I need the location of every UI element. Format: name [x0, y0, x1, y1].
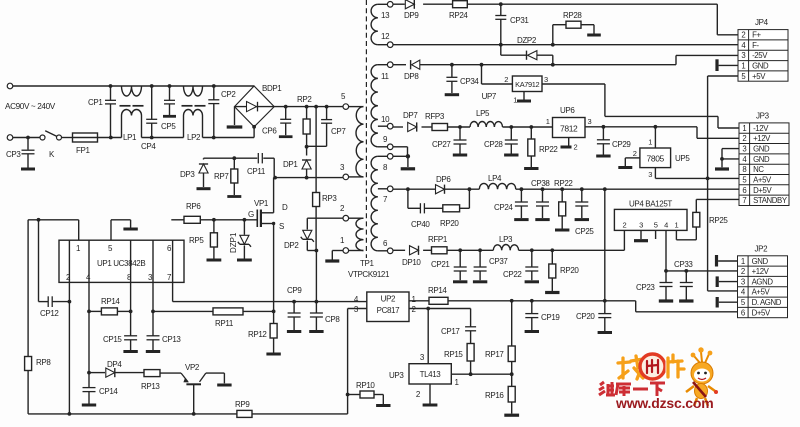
- svg-text:11: 11: [381, 72, 389, 81]
- resistor RP7: [214, 158, 241, 196]
- svg-text:7: 7: [742, 196, 746, 205]
- wire TL413 pin1: [451, 372, 513, 376]
- capacitor CP12: [39, 220, 70, 318]
- svg-text:CP20: CP20: [576, 312, 595, 321]
- diode DP6: [436, 175, 452, 194]
- wire +5V vertical: [707, 76, 709, 291]
- svg-text:TL413: TL413: [420, 370, 442, 379]
- diode DP3: [180, 158, 211, 189]
- svg-text:CP31: CP31: [510, 16, 529, 25]
- capacitor CP6: [262, 107, 293, 137]
- diode DP4: [89, 360, 144, 377]
- svg-text:UP4 BA125T: UP4 BA125T: [629, 200, 672, 209]
- connector JP3: [739, 111, 789, 205]
- svg-text:RP3: RP3: [322, 194, 337, 203]
- svg-text:CP8: CP8: [325, 315, 340, 324]
- svg-text:CP11: CP11: [247, 167, 266, 176]
- svg-text:VTPCK9121: VTPCK9121: [348, 270, 390, 279]
- svg-text:2: 2: [623, 221, 627, 230]
- label AC90V ~ 240V: [5, 102, 56, 111]
- svg-text:CP38: CP38: [531, 179, 550, 188]
- svg-text:3: 3: [588, 117, 592, 126]
- resistor RP12: [248, 311, 281, 354]
- capacitor CP1: [88, 86, 116, 138]
- svg-text:CP25: CP25: [575, 227, 594, 236]
- svg-text:www.dzsc.com: www.dzsc.com: [615, 395, 713, 411]
- ic UP1 UC3842B: [59, 240, 184, 282]
- svg-text:1: 1: [675, 221, 679, 230]
- svg-text:RP25: RP25: [709, 216, 728, 225]
- svg-text:RFP3: RFP3: [425, 112, 445, 121]
- svg-text:1: 1: [741, 257, 745, 266]
- node pin 6: [378, 239, 393, 254]
- svg-text:RP14: RP14: [428, 286, 447, 295]
- svg-text:RP13: RP13: [141, 382, 160, 391]
- wire pin2 to ground rail: [68, 240, 72, 416]
- wire pin8 stem: [129, 240, 133, 336]
- node bridge dc- vertex: [252, 125, 256, 129]
- svg-text:S: S: [279, 222, 284, 231]
- inductor LP2 common-mode choke: [182, 86, 206, 142]
- wire +12V secondary to JP2: [666, 269, 738, 273]
- svg-text:RP14: RP14: [101, 297, 120, 306]
- capacitor CP15: [103, 335, 138, 352]
- transistor VP2: [181, 363, 224, 414]
- svg-text:TP1: TP1: [360, 259, 374, 268]
- wire gate node: [200, 218, 257, 222]
- wire pins 9-8 ground: [393, 147, 415, 169]
- capacitor CP25: [575, 189, 595, 236]
- svg-text:VP1: VP1: [254, 199, 269, 208]
- svg-text:D+5V: D+5V: [753, 186, 772, 195]
- diode DP10: [402, 246, 421, 267]
- svg-text:CP24: CP24: [494, 203, 513, 212]
- svg-text:LP3: LP3: [499, 235, 513, 244]
- wire pin7 rail D+5V: [393, 187, 739, 191]
- svg-text:CP12: CP12: [40, 309, 59, 318]
- svg-text:7805: 7805: [647, 154, 665, 164]
- capacitor CP9: [287, 286, 302, 332]
- svg-text:-25V: -25V: [752, 51, 768, 60]
- svg-text:RP8: RP8: [36, 358, 51, 367]
- ground at pin1: [325, 251, 343, 262]
- svg-text:A+5V: A+5V: [752, 288, 771, 297]
- svg-text:RP5: RP5: [189, 236, 204, 245]
- svg-text:DP9: DP9: [404, 11, 419, 20]
- capacitor CP24: [494, 189, 529, 219]
- svg-text:RP20: RP20: [440, 219, 459, 228]
- svg-text:3: 3: [742, 145, 746, 154]
- node clamp junction: [305, 145, 309, 149]
- capacitor CP21: [431, 250, 467, 281]
- optocoupler UP2 PC817: [354, 292, 417, 322]
- ground JP4 GND: [717, 59, 738, 71]
- capacitor CP11: [247, 153, 266, 176]
- wire snubber top: [204, 156, 275, 177]
- wire UP4 pin2: [623, 230, 625, 250]
- svg-text:GND: GND: [752, 62, 769, 71]
- svg-text:GND: GND: [752, 257, 769, 266]
- wire AC top line: [13, 84, 254, 88]
- svg-text:CP14: CP14: [99, 387, 118, 396]
- wire aux VCC drop: [315, 251, 317, 301]
- capacitor CP2: [208, 86, 236, 138]
- ic UP3 TL413: [389, 309, 460, 400]
- wire STANDBY: [696, 198, 739, 200]
- wire pin1 loop: [28, 218, 79, 240]
- svg-text:13: 13: [381, 11, 390, 20]
- capacitor CP23: [636, 271, 673, 301]
- svg-text:2: 2: [741, 267, 745, 276]
- svg-text:CP37: CP37: [489, 257, 508, 266]
- bridge rectifier BDP1: [235, 84, 283, 127]
- svg-text:LP1: LP1: [123, 133, 137, 142]
- svg-text:RP10: RP10: [356, 381, 375, 390]
- svg-text:CP3: CP3: [6, 150, 21, 159]
- svg-text:DP6: DP6: [436, 175, 451, 184]
- capacitor CP17: [441, 309, 476, 344]
- resistor RP14 (feedback): [409, 286, 512, 304]
- fuse FP1: [73, 133, 98, 155]
- svg-text:CP34: CP34: [460, 77, 479, 86]
- svg-text:CP17: CP17: [441, 327, 460, 336]
- svg-text:RP22: RP22: [539, 145, 558, 154]
- wire pin10 rail: [393, 125, 553, 129]
- svg-text:DP1: DP1: [283, 160, 298, 169]
- svg-text:CP28: CP28: [484, 140, 503, 149]
- svg-text:1: 1: [741, 62, 745, 71]
- node transformer pin 3: [340, 163, 349, 180]
- wire JP4 +5V entry: [708, 75, 738, 77]
- svg-text:CP23: CP23: [636, 283, 655, 292]
- svg-text:+5V: +5V: [752, 72, 766, 81]
- diode DP8: [404, 60, 420, 81]
- resistor RP9: [235, 400, 252, 417]
- svg-text:CP27: CP27: [432, 140, 451, 149]
- node pin 8: [383, 154, 393, 173]
- svg-text:DP2: DP2: [284, 241, 299, 250]
- resistor RP15: [444, 344, 474, 375]
- transformer secondary winding 11-10-9: [371, 65, 387, 147]
- wire UP4 pin4: [664, 230, 668, 272]
- svg-text:2: 2: [741, 31, 745, 40]
- svg-text:RFP1: RFP1: [428, 235, 448, 244]
- node pin 13: [381, 2, 393, 21]
- svg-text:RP20: RP20: [560, 266, 579, 275]
- resistor RP6: [171, 202, 201, 223]
- svg-text:JP3: JP3: [756, 111, 770, 120]
- resistor RP10: [348, 381, 391, 406]
- node transformer pin 2: [340, 204, 349, 221]
- svg-text:3: 3: [741, 51, 745, 60]
- svg-text:1: 1: [546, 117, 550, 126]
- svg-text:AC90V ~ 240V: AC90V ~ 240V: [5, 102, 56, 111]
- svg-text:LP4: LP4: [488, 174, 502, 183]
- svg-text:LP5: LP5: [476, 109, 490, 118]
- node pin 12: [381, 32, 393, 48]
- svg-text:2: 2: [574, 143, 578, 152]
- resistor RP20 (second): [545, 250, 579, 292]
- svg-text:STANDBY: STANDBY: [753, 196, 788, 205]
- ground JP2 GND: [717, 255, 738, 267]
- resistor RP2: [297, 95, 312, 147]
- svg-text:D+5V: D+5V: [752, 308, 771, 317]
- wire pin2 node: [307, 217, 343, 219]
- zener DZP2: [501, 36, 553, 65]
- svg-text:+12V: +12V: [753, 134, 771, 143]
- svg-text:RP28: RP28: [563, 11, 582, 20]
- svg-text:PC817: PC817: [377, 306, 400, 315]
- wire A+5V rail: [655, 177, 739, 181]
- resistor RP5: [189, 220, 221, 260]
- svg-text:CP22: CP22: [503, 270, 522, 279]
- svg-text:CP15: CP15: [103, 335, 122, 344]
- capacitor CP4: [141, 86, 157, 151]
- svg-text:3: 3: [741, 277, 745, 286]
- svg-text:DP4: DP4: [107, 360, 122, 369]
- wire pin6 rail A+5V: [393, 248, 624, 252]
- connector JP2: [738, 244, 788, 317]
- node pin 10: [381, 115, 393, 129]
- svg-text:AGND: AGND: [752, 277, 774, 286]
- svg-text:RP22: RP22: [554, 179, 573, 188]
- wire AC bottom line: [13, 127, 254, 140]
- inductor LP5: [470, 109, 503, 127]
- node pin 7: [383, 186, 393, 204]
- capacitor CP3: [6, 138, 35, 170]
- wire pin7 VCC: [173, 240, 367, 303]
- connector JP4: [738, 18, 788, 81]
- svg-text:RP9: RP9: [235, 400, 250, 409]
- ic UP6 7812: [546, 106, 592, 152]
- svg-text:DP7: DP7: [403, 111, 418, 120]
- svg-text:NC: NC: [753, 165, 764, 174]
- svg-text:G: G: [248, 210, 254, 219]
- svg-text:CP6: CP6: [262, 127, 277, 136]
- svg-text:CP2: CP2: [221, 90, 236, 99]
- svg-text:KA7912: KA7912: [515, 80, 539, 89]
- capacitor CP31: [495, 4, 529, 45]
- wire pin4 stem: [87, 240, 91, 374]
- ic UP5 7805: [618, 127, 690, 179]
- svg-text:CP4: CP4: [141, 142, 156, 151]
- svg-text:RP2: RP2: [297, 95, 312, 104]
- wire PC817 pin2: [409, 307, 471, 311]
- capacitor CP19: [525, 301, 561, 332]
- resistor RP14 (pin4-pin8): [89, 297, 131, 315]
- wire rectified HV rail: [274, 105, 345, 109]
- svg-text:RP15: RP15: [444, 350, 463, 359]
- resistor RP24: [449, 1, 468, 20]
- svg-text:RP11: RP11: [215, 319, 234, 328]
- svg-text:RP6: RP6: [186, 202, 201, 211]
- node pin 11: [381, 62, 393, 81]
- resistor RP22: [524, 127, 558, 169]
- capacitor CP7: [307, 107, 347, 147]
- svg-text:3: 3: [648, 170, 652, 179]
- ic UP7 KA7912: [482, 65, 549, 105]
- svg-text:CP5: CP5: [161, 122, 176, 131]
- ground JP2 D.AGND: [717, 297, 737, 308]
- svg-text:3: 3: [639, 221, 643, 230]
- capacitor CP20: [576, 301, 612, 333]
- svg-text:F+: F+: [752, 31, 761, 40]
- node AC line input terminal L: [7, 83, 13, 89]
- wire pin13 rail: [393, 2, 717, 35]
- svg-text:5: 5: [654, 221, 658, 230]
- transformer secondary winding 8-7-6: [371, 156, 387, 251]
- wire pin12 rail: [393, 43, 738, 47]
- ground JP2 AGND: [717, 276, 737, 287]
- ground bar at VP2 collector: [217, 373, 231, 385]
- wire UP4 pin5 stub: [655, 230, 657, 239]
- wire feedback rail: [510, 299, 738, 312]
- ground bar of bridge negative: [227, 107, 243, 127]
- svg-text:UP5: UP5: [675, 154, 690, 163]
- zener DZP1: [229, 220, 252, 260]
- capacitor CP37: [473, 250, 509, 281]
- capacitor CP33: [674, 260, 694, 301]
- capacitor CP8: [309, 302, 340, 332]
- svg-text:D. AGND: D. AGND: [752, 298, 782, 307]
- svg-text:CP29: CP29: [612, 140, 631, 149]
- svg-text:JP4: JP4: [755, 18, 769, 27]
- capacitor CP5: [161, 86, 176, 131]
- capacitor CP29: [596, 127, 631, 156]
- svg-text:VP2: VP2: [185, 363, 200, 372]
- svg-text:CP9: CP9: [287, 286, 302, 295]
- snubber CP40 RP20: [408, 189, 470, 229]
- capacitor CP13: [146, 311, 182, 351]
- wire UP4 pin1 to RP25: [676, 230, 696, 239]
- svg-text:CP1: CP1: [88, 98, 103, 107]
- transformer primary winding 2-1: [349, 218, 364, 250]
- capacitor CP38: [531, 179, 550, 220]
- svg-text:2: 2: [633, 149, 637, 158]
- svg-text:3: 3: [544, 75, 548, 84]
- svg-text:4: 4: [664, 221, 668, 230]
- svg-text:GND: GND: [753, 145, 770, 154]
- wire pin3 stem: [151, 240, 155, 313]
- svg-text:2: 2: [504, 75, 508, 84]
- watermark dzsc logo: [599, 347, 718, 411]
- resistor RP16: [485, 374, 519, 415]
- mosfet VP1: [248, 178, 288, 312]
- resistor RP3 startup: [313, 107, 338, 251]
- svg-text:RP17: RP17: [485, 350, 504, 359]
- svg-text:D: D: [282, 203, 288, 212]
- svg-text:10: 10: [381, 115, 390, 124]
- svg-text:2: 2: [742, 134, 746, 143]
- svg-text:8: 8: [742, 165, 746, 174]
- svg-text:A+5V: A+5V: [753, 176, 772, 185]
- svg-text:1: 1: [513, 96, 517, 105]
- inductor LP1 common-mode choke: [120, 86, 144, 142]
- diode DP9: [404, 0, 419, 20]
- resistor RFP3: [425, 112, 448, 131]
- capacitor CP28: [484, 127, 519, 155]
- svg-text:RP7: RP7: [214, 172, 229, 181]
- svg-text:DP8: DP8: [404, 72, 419, 81]
- capacitor CP27: [432, 127, 467, 155]
- wire +12V route: [585, 125, 739, 138]
- svg-text:1: 1: [648, 138, 652, 147]
- diode DP7: [403, 111, 418, 132]
- transformer secondary winding 13-12: [371, 4, 387, 44]
- resistor RP8: [25, 220, 52, 414]
- svg-text:CP33: CP33: [674, 260, 693, 269]
- svg-text:DP10: DP10: [402, 258, 421, 267]
- wire PC817 pin3: [348, 309, 367, 414]
- node AC line input terminal N: [7, 135, 13, 141]
- svg-text:RP16: RP16: [485, 391, 504, 400]
- svg-text:CP19: CP19: [541, 313, 560, 322]
- diode DP1: [283, 147, 311, 178]
- zener DP2: [284, 218, 318, 252]
- node pin 9: [383, 135, 393, 150]
- svg-text:DP3: DP3: [180, 170, 195, 179]
- ic UP4 BA125T: [614, 200, 687, 231]
- svg-text:CP40: CP40: [411, 220, 430, 229]
- resistor RP25: [693, 199, 729, 239]
- inductor LP3: [493, 235, 518, 250]
- svg-text:RP12: RP12: [248, 330, 267, 339]
- svg-text:DZP2: DZP2: [517, 36, 537, 45]
- wire JP2 A+5V entry: [708, 290, 738, 292]
- svg-text:DZP1: DZP1: [229, 232, 238, 253]
- switch K: [40, 131, 62, 159]
- capacitor CP22: [503, 250, 539, 281]
- capacitor CP34: [445, 65, 480, 95]
- transformer primary winding 5-3: [349, 107, 364, 177]
- wire -12V route: [542, 84, 739, 128]
- svg-text:+12V: +12V: [752, 267, 770, 276]
- resistor RP17: [485, 301, 515, 374]
- capacitor CP14: [82, 373, 119, 405]
- svg-text:CP21: CP21: [431, 260, 450, 269]
- wire drain node: [273, 176, 343, 180]
- resistor RP11: [153, 308, 276, 328]
- resistor RP13: [141, 370, 181, 391]
- resistor RP28: [553, 11, 601, 45]
- svg-text:12: 12: [381, 32, 390, 41]
- svg-text:F-: F-: [752, 41, 759, 50]
- svg-text:UP7: UP7: [482, 92, 497, 101]
- wire JP3 GND rows: [715, 149, 739, 169]
- wire JP4 F+ entry: [717, 34, 738, 36]
- wire D+5V vertical: [604, 189, 606, 301]
- svg-text:BDP1: BDP1: [262, 84, 282, 93]
- resistor RFP1: [428, 235, 448, 254]
- transformer TP1 VTPCK9121 core: [348, 0, 390, 279]
- svg-text:1: 1: [742, 124, 746, 133]
- ground UP4 pin3: [634, 230, 648, 240]
- node transformer pin 5: [341, 92, 349, 109]
- svg-text:CP7: CP7: [331, 127, 346, 136]
- svg-text:UP2: UP2: [381, 295, 396, 304]
- svg-text:RP24: RP24: [449, 11, 468, 20]
- node transformer pin 1: [340, 236, 349, 253]
- wire primary ground rail: [28, 393, 349, 416]
- svg-text:-12V: -12V: [753, 124, 769, 133]
- wire pin11 rail: [393, 55, 738, 66]
- inductor LP4: [479, 174, 516, 189]
- svg-text:LP2: LP2: [187, 133, 201, 142]
- svg-text:CP13: CP13: [162, 335, 181, 344]
- wire TL413 pin2 ground: [423, 384, 438, 405]
- svg-text:7812: 7812: [560, 124, 578, 134]
- resistor RP22 (second): [554, 179, 573, 230]
